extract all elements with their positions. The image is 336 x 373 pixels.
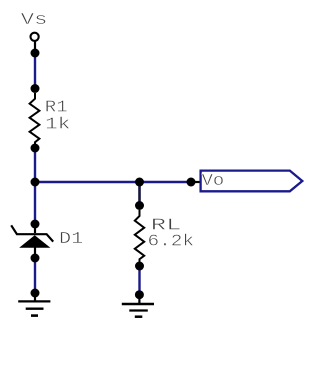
svg-text:Vo: Vo — [202, 172, 225, 191]
svg-text:D1: D1 — [59, 230, 83, 249]
svg-text:1k: 1k — [45, 116, 70, 135]
svg-text:Vs: Vs — [21, 11, 48, 30]
svg-text:R1: R1 — [45, 98, 68, 117]
svg-text:6.2k: 6.2k — [148, 233, 195, 252]
